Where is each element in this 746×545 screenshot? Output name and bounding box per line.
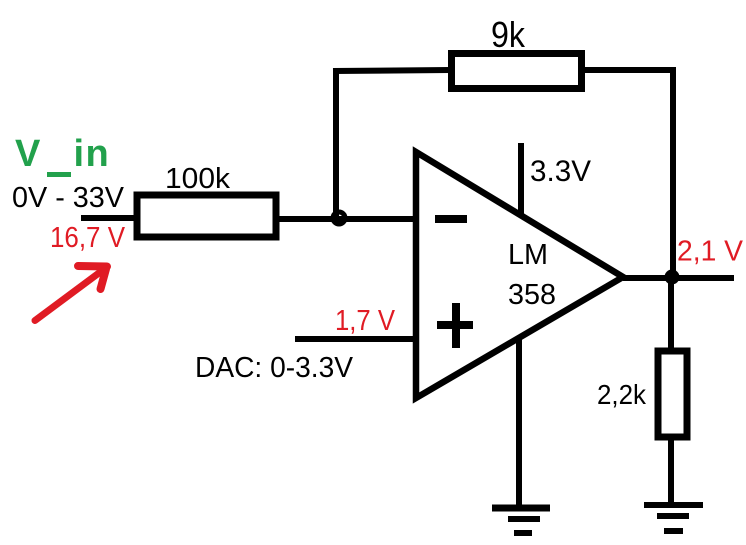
node inverting junction xyxy=(333,212,345,224)
wire feedback top left xyxy=(333,70,450,71)
resistor R1 100k xyxy=(137,195,276,237)
node output junction xyxy=(665,270,680,285)
op-amp U1 LM358 xyxy=(416,152,623,398)
svg-text:LM: LM xyxy=(508,239,548,271)
wire output to R3 xyxy=(668,277,674,350)
svg-text:1,7 V: 1,7 V xyxy=(335,305,395,337)
svg-text:0V - 33V: 0V - 33V xyxy=(12,182,125,214)
svg-text:3.3V: 3.3V xyxy=(530,155,591,188)
svg-text:100k: 100k xyxy=(165,163,231,195)
wire from 100k to op-amp inverting input xyxy=(276,216,417,222)
wire input left xyxy=(81,215,136,221)
svg-text:in: in xyxy=(74,133,111,175)
svg-text:16,7 V: 16,7 V xyxy=(50,222,126,254)
svg-text:2,2k: 2,2k xyxy=(597,379,647,410)
ground left xyxy=(492,508,550,533)
wire R3 to ground xyxy=(668,437,674,505)
op-amp minus symbol xyxy=(435,215,467,223)
wire non-inverting input xyxy=(295,336,417,342)
wire feedback right vertical xyxy=(670,67,676,277)
resistor R2 9k xyxy=(452,54,582,89)
svg-text:DAC: 0-3.3V: DAC: 0-3.3V xyxy=(195,352,354,384)
svg-text:358: 358 xyxy=(508,279,556,311)
op-amp plus symbol xyxy=(437,303,473,348)
arrow annotation red xyxy=(35,266,107,321)
wire feedback top right xyxy=(582,67,676,73)
resistor R3 2,2k xyxy=(658,351,687,437)
svg-text:2,1 V: 2,1 V xyxy=(677,236,743,268)
wire 3.3V supply xyxy=(518,143,524,214)
svg-text:V: V xyxy=(15,133,41,175)
wire riser to feedback xyxy=(333,71,339,220)
svg-text:9k: 9k xyxy=(491,14,526,55)
ground right xyxy=(644,505,703,531)
wire output xyxy=(623,275,734,281)
wire op-amp to ground xyxy=(516,337,522,505)
